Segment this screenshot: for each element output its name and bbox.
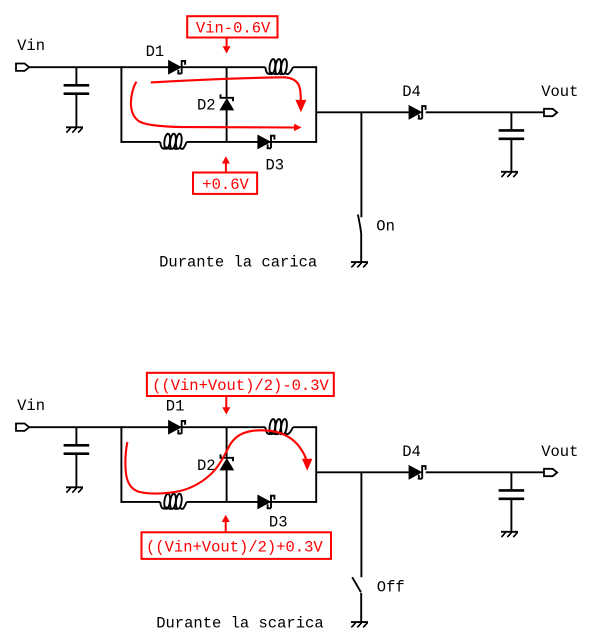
wire box bottom-right segment bbox=[187, 141, 317, 143]
wire box top-right segment (discharge circuit) bbox=[293, 426, 316, 428]
ground S1 bbox=[351, 262, 368, 267]
svg-text:+0.6V: +0.6V bbox=[202, 176, 249, 194]
diode D3 (discharge circuit) bbox=[258, 495, 275, 508]
svg-text:Vin: Vin bbox=[17, 37, 45, 55]
current flow arrow lower (charge loop) bbox=[131, 82, 302, 131]
wire box to D4 bbox=[316, 111, 409, 113]
wire D4 to Vout bbox=[426, 111, 545, 113]
svg-text:D3: D3 bbox=[266, 157, 285, 175]
terminal Vout bbox=[544, 109, 557, 116]
current flow arrow upper (charge loop) bbox=[151, 77, 307, 112]
wire box left edge (discharge circuit) bbox=[120, 426, 122, 502]
ground C2 (discharge circuit) bbox=[501, 532, 518, 537]
wire box top-left segment bbox=[121, 66, 265, 68]
wire switch to ground (discharge circuit) bbox=[360, 593, 362, 622]
diode D2 (discharge circuit) bbox=[220, 454, 233, 470]
svg-text:D1: D1 bbox=[146, 43, 165, 61]
wire box left edge bbox=[120, 66, 122, 142]
diode D1 bbox=[169, 61, 186, 74]
wire box to D4 (discharge circuit) bbox=[316, 471, 409, 473]
ground C1 (discharge circuit) bbox=[66, 487, 83, 492]
inductor L1 bbox=[265, 59, 293, 75]
svg-text:Off: Off bbox=[377, 579, 405, 597]
wire box bottom-right segment (discharge circuit) bbox=[187, 501, 317, 503]
wire input (discharge circuit) bbox=[29, 426, 121, 428]
terminal Vin (discharge circuit) bbox=[16, 424, 29, 431]
wire box top-right segment bbox=[293, 66, 316, 68]
annotation arrow ((Vin+Vout)/2)+0.3V bbox=[222, 515, 230, 533]
terminal Vin bbox=[16, 64, 29, 71]
svg-text:Vin: Vin bbox=[17, 397, 45, 415]
wire box bottom-left segment bbox=[120, 141, 160, 143]
wire box right edge bbox=[315, 66, 317, 143]
wire box top-left segment (discharge circuit) bbox=[121, 426, 265, 428]
wire input bbox=[29, 66, 121, 68]
capacitor C2 bbox=[499, 112, 525, 171]
svg-text:D4: D4 bbox=[402, 83, 421, 101]
inductor L1 (discharge circuit) bbox=[265, 419, 293, 435]
svg-text:((Vin+Vout)/2)-0.3V: ((Vin+Vout)/2)-0.3V bbox=[152, 377, 329, 395]
svg-text:D1: D1 bbox=[166, 398, 185, 416]
wire switch to ground bbox=[360, 233, 362, 262]
wire switch branch (discharge circuit) bbox=[360, 472, 362, 577]
wire D2 branch lower bbox=[226, 110, 228, 142]
terminal Vout (discharge circuit) bbox=[544, 469, 557, 476]
annotation box ((Vin+Vout)/2)+0.3V bbox=[142, 532, 332, 559]
annotation arrow ((Vin+Vout)/2)-0.3V bbox=[222, 396, 230, 414]
svg-text:D4: D4 bbox=[402, 443, 421, 461]
annotation box +0.6V bbox=[193, 173, 257, 195]
diode D1 (discharge circuit) bbox=[169, 421, 186, 434]
svg-text:Durante la scarica: Durante la scarica bbox=[156, 615, 323, 633]
diode D3 bbox=[258, 135, 275, 148]
svg-text:On: On bbox=[376, 218, 395, 236]
svg-text:D3: D3 bbox=[269, 513, 288, 531]
wire switch branch bbox=[360, 112, 362, 217]
svg-text:Vin-0.6V: Vin-0.6V bbox=[196, 20, 271, 38]
wire D2 branch upper (discharge circuit) bbox=[226, 427, 228, 457]
capacitor C1 (discharge circuit) bbox=[64, 427, 90, 486]
wire D4 to Vout (discharge circuit) bbox=[426, 471, 545, 473]
svg-text:((Vin+Vout)/2)+0.3V: ((Vin+Vout)/2)+0.3V bbox=[146, 539, 323, 557]
svg-text:D2: D2 bbox=[197, 97, 216, 115]
inductor L2 (discharge circuit) bbox=[160, 493, 186, 509]
diode D2 bbox=[220, 94, 233, 110]
ground C1 bbox=[66, 127, 83, 132]
ground S1 (discharge circuit) bbox=[351, 622, 368, 627]
annotation arrow Vin-0.6V bbox=[223, 38, 231, 54]
capacitor C1 bbox=[64, 67, 90, 126]
annotation box ((Vin+Vout)/2)-0.3V bbox=[147, 373, 334, 396]
ground C2 bbox=[501, 172, 518, 177]
svg-text:Vout: Vout bbox=[541, 83, 578, 101]
capacitor C2 (discharge circuit) bbox=[499, 472, 525, 531]
svg-text:Vout: Vout bbox=[541, 443, 578, 461]
wire D2 branch lower (discharge circuit) bbox=[226, 470, 228, 502]
diode D4 bbox=[409, 106, 426, 119]
current flow arrow (discharge loop) bbox=[125, 430, 312, 493]
wire D2 branch upper bbox=[226, 67, 228, 97]
annotation box Vin-0.6V bbox=[187, 16, 277, 37]
diode D4 (discharge circuit) bbox=[409, 466, 426, 479]
wire box right edge (discharge circuit) bbox=[315, 426, 317, 503]
annotation arrow +0.6V bbox=[222, 156, 230, 172]
inductor L2 bbox=[160, 133, 186, 149]
svg-text:Durante la carica: Durante la carica bbox=[159, 254, 317, 272]
switch S1 closed (On) bbox=[358, 215, 361, 234]
wire box bottom-left segment (discharge circuit) bbox=[120, 501, 160, 503]
switch S1 open (Off) bbox=[352, 577, 361, 592]
